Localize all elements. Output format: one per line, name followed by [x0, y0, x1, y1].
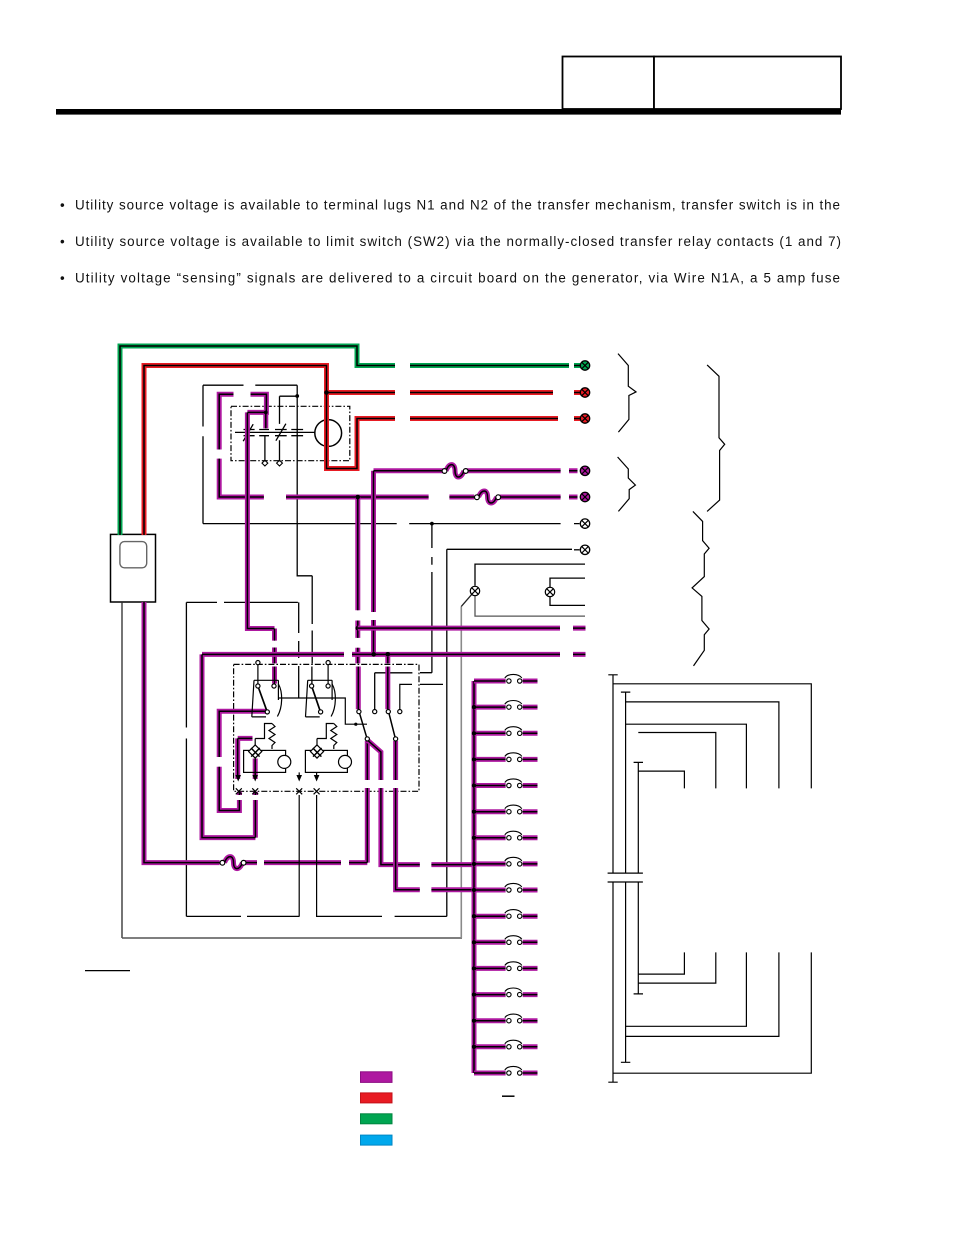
harness branch b4 [638, 733, 716, 789]
brace C [618, 457, 636, 511]
legend swatch red [361, 1093, 393, 1103]
svg-text:Utility source voltage is avai: Utility source voltage is available to t… [75, 198, 840, 213]
connector row 13 [474, 988, 538, 997]
connector row 14 [474, 1014, 538, 1023]
label tick bottom [502, 1095, 515, 1097]
lamp DS2 [545, 587, 554, 596]
connector row 10 [474, 910, 538, 919]
bus junction nodes [472, 705, 476, 1049]
wire row7 terminal stub [574, 549, 580, 551]
harness branch c4 [626, 952, 779, 1036]
terminal E2 red [580, 388, 589, 397]
capacitor C1 (slashed) [243, 424, 254, 441]
harness branch c3 [626, 952, 747, 1026]
header box left [563, 57, 655, 110]
wire lamp diagonal lead [461, 595, 471, 607]
lamp DS1 [470, 586, 479, 595]
relay coil pin wires [299, 772, 316, 916]
wire M V388 relay feed [385, 654, 390, 709]
connector row 1 [474, 674, 538, 683]
harness branch c1 [638, 952, 684, 974]
wire N1 green run [120, 346, 580, 535]
harness bundle (right) [608, 675, 812, 1082]
connector row 8 [474, 857, 538, 866]
brace B [707, 365, 725, 512]
connector row 16 [474, 1066, 538, 1075]
harness bus 1 [608, 675, 617, 1082]
header rule [56, 109, 841, 115]
legend swatch green [361, 1114, 393, 1124]
wire M blade1 branch to bus [368, 741, 475, 865]
wire M H1 [358, 626, 586, 631]
relay switch S2 [306, 661, 336, 717]
node red branch [324, 390, 329, 395]
box T (transfer mechanism enclosure) [203, 385, 297, 523]
wire M motor feed [247, 394, 274, 683]
motor cap wiring [235, 385, 315, 461]
header box right [654, 57, 841, 110]
connector row 7 [474, 831, 538, 840]
harness branch c5 [613, 952, 811, 1073]
node row6/V432 [430, 522, 434, 526]
relay contact blades [360, 713, 395, 737]
inline connector row5 [479, 491, 497, 503]
lamp1 lower lead (gray) [475, 596, 585, 616]
relay contact pins [357, 710, 402, 742]
box B2 (switch enclosure right) [316, 549, 572, 916]
wire M fuse run (N1A) [144, 602, 367, 863]
box B1 (limit switch SW1 enclosure) [186, 602, 299, 916]
pin X marks [236, 788, 320, 794]
connector row 11 [474, 936, 538, 945]
connector row 2 [474, 701, 538, 710]
legend swatch magenta [361, 1072, 393, 1083]
connector row 6 [474, 805, 538, 814]
brace D [692, 511, 709, 666]
svg-text:•: • [60, 234, 65, 249]
relay link wiring [278, 698, 367, 724]
connector bus (magenta) [472, 681, 477, 1073]
node: motor box top [295, 394, 299, 398]
motor M1 [315, 420, 342, 447]
motor box (dash-dot) [231, 406, 350, 460]
relay coil K2 assembly [305, 724, 351, 773]
wire M V1 relay feed [355, 497, 361, 709]
connector row 12 [474, 962, 538, 971]
connector row 4 [474, 753, 538, 762]
connector row 5 [474, 779, 538, 788]
harness break marks [608, 873, 643, 882]
wire M coil K1 leads [238, 738, 256, 779]
terminal E1 green [580, 361, 589, 370]
relay switch S1 [252, 661, 282, 717]
terminal E7 white [580, 545, 589, 554]
ground return wire (gray loop) [121, 603, 123, 938]
wire M SW1 blade return [219, 711, 265, 810]
harness bus 2 [621, 692, 630, 1062]
capacitor C3 (slashed) [275, 424, 287, 441]
legend swatch cyan [361, 1135, 393, 1145]
brace A [618, 354, 636, 433]
harness branch b1 [613, 684, 811, 789]
pin arrows [235, 775, 319, 782]
relay pin4 wiring [400, 684, 443, 709]
wire motor feed to switch SW2 [297, 396, 312, 684]
transfer relay box (dash-dot) [234, 664, 419, 791]
wire M H2 long run [202, 654, 586, 837]
terminal E4 magenta [580, 466, 589, 475]
connector plug J1 (left) [111, 534, 156, 602]
wire M row5 chain [219, 394, 577, 497]
terminal E6 white [580, 519, 589, 528]
lamp circuit wiring [475, 564, 585, 605]
capacitor C4 [291, 430, 303, 436]
connector row 9 [474, 883, 538, 892]
wire N2 red run [144, 366, 580, 536]
relay coil K1 assembly [244, 724, 291, 773]
wire M row4 [374, 471, 578, 654]
capacitor C2 [259, 430, 269, 436]
harness bus 3 [634, 762, 643, 994]
harness branch b3 [626, 724, 747, 788]
harness branch c2 [638, 952, 716, 983]
fuse F1 inline connector [225, 857, 243, 869]
terminal E5 magenta [580, 492, 589, 501]
svg-text:•: • [60, 198, 65, 213]
svg-text:Utility source voltage is avai: Utility source voltage is available to l… [75, 234, 841, 249]
terminal E3 red [580, 414, 589, 423]
pin diamonds on motor box [262, 460, 282, 466]
connector row 3 [474, 727, 538, 736]
inline connector row4 [446, 465, 464, 477]
wire M blade2 to bus [396, 741, 475, 890]
label tick left [85, 970, 130, 972]
harness branch b5 [638, 771, 684, 788]
wire V432 (row6 to relay contact) [375, 524, 432, 710]
svg-text:•: • [60, 271, 65, 286]
connector row 15 [474, 1040, 538, 1049]
wire row6 / box T bottom [203, 523, 580, 525]
svg-text:Utility voltage “sensing” sign: Utility voltage “sensing” signals are de… [75, 271, 840, 286]
harness branch b2 [626, 702, 779, 789]
